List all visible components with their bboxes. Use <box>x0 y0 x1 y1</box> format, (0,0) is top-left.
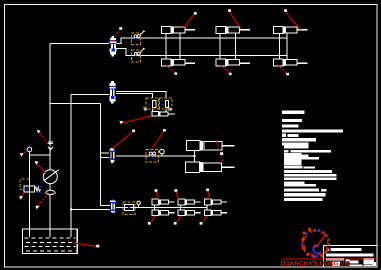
wire filter to tank <box>49 195 51 238</box>
pilot check box B3 <box>146 98 159 109</box>
pilot check B4 seat mark <box>167 107 172 110</box>
cylinder C2 top (pair 2) <box>216 27 250 34</box>
small cylinder unit (under check boxes) <box>152 112 175 117</box>
wire clamp pair 1 riser <box>154 205 156 210</box>
valve V1 <box>109 36 116 56</box>
clamp cylinder pair 2 bottom <box>178 210 200 216</box>
leader gauge G1 <box>20 151 27 157</box>
leader cylinder C3 top <box>284 9 300 29</box>
throttle box B1 <box>131 33 140 45</box>
leader cylinder C2 bottom <box>220 65 232 76</box>
wire middle cylinder tee vertical <box>194 151 196 162</box>
throttle B1 adjust arrow <box>141 31 145 34</box>
logo inner red arc <box>304 231 328 255</box>
logo clock hand <box>316 235 326 248</box>
leader filter F1 <box>35 196 46 210</box>
pressure gauge G1 <box>27 147 32 152</box>
logo blue dots <box>301 229 327 258</box>
wire tee to manifold trunk <box>50 103 100 105</box>
title block cells row 1 <box>326 258 344 261</box>
pressure ornament circle middle row <box>160 149 165 156</box>
wire stub to valve V3 port A <box>100 152 109 154</box>
pressure ornament circle bottom row <box>137 201 140 207</box>
oil tank T1 <box>22 229 77 254</box>
wire middle row supply line <box>116 155 195 157</box>
leader middle cylinder pair <box>216 141 224 164</box>
leader clamp pair 3 bottom <box>200 216 207 225</box>
leader relief valve RV1 <box>19 192 24 199</box>
leader tank T1 <box>73 243 99 248</box>
title block text row B <box>326 253 374 256</box>
leader clamp pair 2 bottom <box>174 216 181 225</box>
clamp cylinder pair 3 bottom <box>204 210 226 216</box>
wire clamp pair 3 riser <box>206 205 208 210</box>
wire pressure trunk to valve V1 <box>50 43 109 45</box>
wire return line to valve V2 <box>71 93 109 95</box>
pilot check box B4 <box>160 98 173 109</box>
throttle B2 adjust arrow <box>141 48 145 51</box>
leader cylinder C2 top <box>228 9 241 29</box>
wire check box B3 drop <box>152 109 154 112</box>
cylinder C1 top (pair 1) <box>162 27 196 34</box>
wire clamp pair 2 riser <box>180 205 182 210</box>
clamp cylinder pair 1 top <box>152 199 174 205</box>
wire cylinder pair 1 pipes <box>166 33 180 59</box>
wire cylinder pair 3 pipes <box>279 33 287 59</box>
leader clamp pair 3 top <box>206 189 210 200</box>
leader cylinder C1 bottom <box>166 65 178 75</box>
clamp cylinder pair 1 bottom <box>152 210 174 216</box>
leader clamp pair 2 top <box>175 189 179 199</box>
wire valve V1 to lower bus B <box>116 49 287 56</box>
leader valve V3 <box>113 130 136 149</box>
pump P1 <box>43 170 59 184</box>
relief valve RV1 <box>24 186 41 193</box>
wire pump to filter <box>49 184 51 191</box>
check valve CV1 <box>48 142 53 150</box>
cylinder C4 bottom (middle pair) <box>186 162 235 173</box>
wire stub to valve V3 port B <box>100 157 109 159</box>
wire cylinder pair 2 pipes <box>220 33 235 59</box>
cylinder C4 top (middle pair) <box>186 141 234 151</box>
logo gear teeth blobs <box>301 228 328 259</box>
logo blue crescent <box>313 245 321 253</box>
wire manifold trunk vertical <box>99 104 101 206</box>
leader check valve CV1 <box>37 130 50 147</box>
cylinder C1 bottom (pair 1) <box>162 59 196 66</box>
throttle box B2 <box>131 50 140 62</box>
wire check box B4 drop <box>165 109 167 112</box>
valve V2 <box>109 81 115 104</box>
leader small cylinder unit <box>119 116 151 125</box>
logo small red inner bits <box>313 245 316 250</box>
cylinder C2 bottom (pair 2) <box>216 59 250 66</box>
logo gear ring <box>303 230 330 257</box>
leader pump P1 <box>35 161 46 173</box>
wire gauge branch horizontal <box>29 154 50 156</box>
filter F1 <box>45 190 56 194</box>
cylinder C3 bottom (pair 3) <box>274 59 308 66</box>
leader cylinder C3 bottom <box>277 65 289 76</box>
wire corner to valve V4 P port <box>100 205 110 207</box>
wire pump pressure trunk vertical <box>49 44 51 170</box>
notes text block <box>282 111 343 201</box>
leader clamp pair 1 bottom <box>148 216 155 225</box>
wire return branch to valve V4 <box>71 208 110 210</box>
valve V4 <box>110 199 117 214</box>
relief valve dash-dot enclosure <box>20 179 30 189</box>
leader cylinder C1 top <box>184 12 197 28</box>
title block red rule <box>282 258 378 260</box>
clamp cylinder pair 2 top <box>178 199 200 205</box>
junction node middle tee <box>194 155 196 157</box>
wire gauge-relief drop to tank <box>28 152 30 238</box>
throttle box B6 <box>123 202 135 214</box>
pilot check B3 seat mark <box>144 107 147 110</box>
title block text row A <box>327 248 330 251</box>
wire valve V1 to upper bus A <box>116 38 287 44</box>
cylinder C3 top (pair 3) <box>274 27 308 34</box>
wire valve V2 to check box B3 <box>116 94 152 98</box>
wire valve V2 to check box B4 <box>116 91 166 97</box>
valve V3 <box>109 148 116 163</box>
clamp cylinder pair 3 top <box>204 199 226 205</box>
leader throttle B5 <box>151 129 166 149</box>
junction node return branch <box>70 209 72 211</box>
title block cells row 2 <box>332 258 376 266</box>
leader valve V1 <box>115 27 122 36</box>
wire bottom row bus <box>116 207 207 209</box>
leader clamp pair 1 top <box>155 189 159 199</box>
throttle box B5 <box>146 150 159 163</box>
wire tank return trunk vertical <box>70 94 72 237</box>
svg-text:DOANCHATLUONG.VN: DOANCHATLUONG.VN <box>281 261 350 268</box>
title block outer box <box>324 245 378 267</box>
